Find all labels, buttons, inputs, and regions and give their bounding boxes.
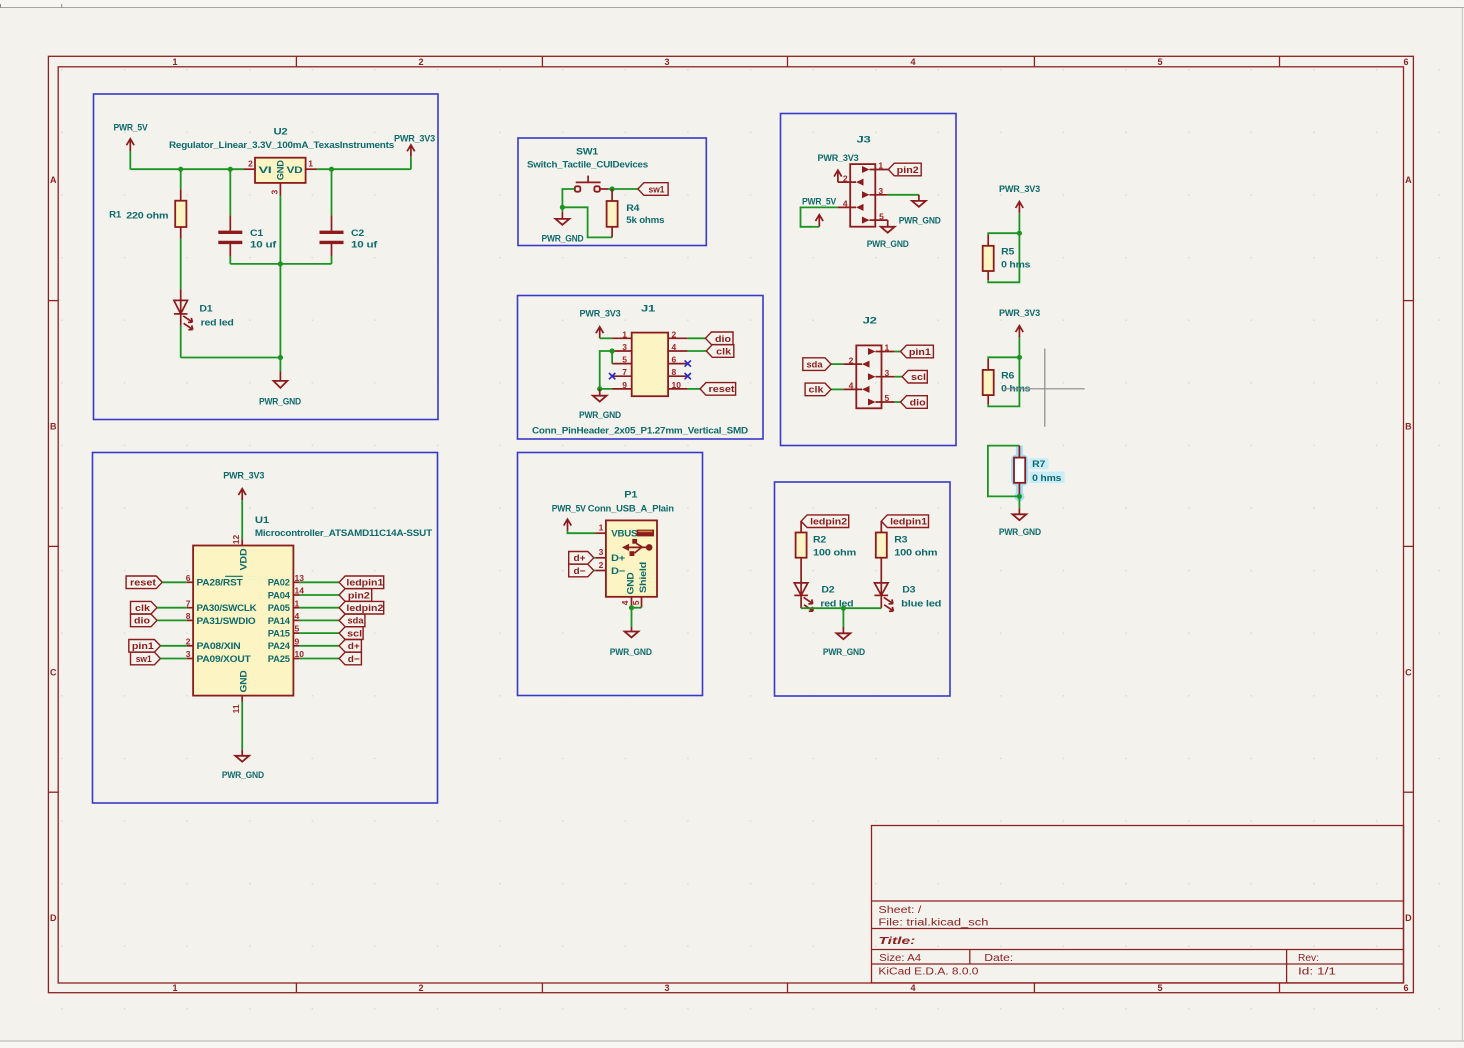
svg-text:PA04: PA04 xyxy=(268,590,291,601)
svg-text:dio: dio xyxy=(715,334,731,345)
wire pin1 J2 xyxy=(895,351,901,353)
svg-text:ledpin2: ledpin2 xyxy=(346,603,383,614)
pin 1 P1 xyxy=(595,532,606,534)
pin 10 U1 PA25 xyxy=(293,658,299,660)
svg-text:clk: clk xyxy=(809,385,825,396)
resistor R5 xyxy=(983,235,1030,281)
svg-text:PWR_3V3: PWR_3V3 xyxy=(999,308,1040,319)
node junction C1 xyxy=(228,167,233,172)
svg-text:1: 1 xyxy=(308,159,313,169)
node junction gnd sw xyxy=(560,205,565,210)
pin 2 J3 xyxy=(838,173,864,185)
svg-text:6: 6 xyxy=(1403,983,1408,993)
svg-text:blue led: blue led xyxy=(901,598,941,609)
wire R7 to gnd xyxy=(1018,496,1020,508)
no-connect pin7 xyxy=(609,373,615,379)
pin 3 J2 xyxy=(868,368,895,380)
pin 11 U1 GND xyxy=(241,696,243,702)
svg-text:PWR_3V3: PWR_3V3 xyxy=(818,153,859,164)
svg-text:D−: D− xyxy=(611,566,626,577)
svg-text:PWR_GND: PWR_GND xyxy=(222,770,264,781)
svg-text:2: 2 xyxy=(599,560,604,570)
pin 1 U1 PA05 xyxy=(293,607,299,609)
pin 8 J1 xyxy=(668,375,688,377)
svg-text:1: 1 xyxy=(295,598,300,608)
svg-text:3: 3 xyxy=(664,57,669,67)
svg-text:pin2: pin2 xyxy=(348,590,370,601)
svg-text:sda: sda xyxy=(807,359,824,370)
label reset J1 xyxy=(700,383,736,396)
svg-text:d+: d+ xyxy=(348,641,360,652)
node junction R1 xyxy=(178,167,183,172)
power flag PWR_5V xyxy=(114,123,149,151)
label sw1 xyxy=(638,183,668,196)
pin 4 P1 GND xyxy=(631,597,633,608)
svg-text:7: 7 xyxy=(622,367,627,377)
label pin2 J3 xyxy=(888,163,921,176)
svg-text:10 uf: 10 uf xyxy=(351,239,378,250)
resistor R1 xyxy=(109,169,186,238)
pin 1 U2 xyxy=(306,168,318,170)
label ledpin2 U1 xyxy=(300,601,384,614)
wire clk to pin4 xyxy=(831,388,843,390)
resistor R7 selected highlight halo xyxy=(1014,446,1065,502)
capacitor C2 xyxy=(320,169,379,256)
svg-text:PA02: PA02 xyxy=(268,578,290,589)
svg-text:R7: R7 xyxy=(1032,459,1045,470)
svg-text:dio: dio xyxy=(134,616,150,627)
connector J2 body xyxy=(856,315,881,408)
node junction caps gnd xyxy=(278,261,283,266)
svg-text:5: 5 xyxy=(879,211,884,221)
power flag PWR_3V3 R6 xyxy=(999,308,1040,337)
svg-text:reset: reset xyxy=(709,384,736,395)
svg-text:100 ohm: 100 ohm xyxy=(894,548,937,559)
svg-text:2: 2 xyxy=(418,983,423,993)
svg-text:PA31/SWDIO: PA31/SWDIO xyxy=(197,616,256,627)
no-connect pin6 xyxy=(685,360,691,366)
BLOCK P1 xyxy=(518,453,703,696)
label pin1 U1 xyxy=(129,640,187,653)
svg-text:PWR_GND: PWR_GND xyxy=(610,647,652,658)
svg-text:ledpin1: ledpin1 xyxy=(890,517,928,528)
svg-text:ledpin1: ledpin1 xyxy=(346,578,384,589)
label reset U1 xyxy=(126,576,187,589)
svg-text:5: 5 xyxy=(295,624,300,634)
svg-text:PWR_GND: PWR_GND xyxy=(899,215,941,226)
label dio J2 xyxy=(901,396,928,409)
group box leds xyxy=(775,482,951,696)
svg-text:0 hms: 0 hms xyxy=(1032,473,1061,484)
svg-text:PWR_3V3: PWR_3V3 xyxy=(223,471,264,482)
pin 13 U1 PA02 xyxy=(293,581,299,583)
wire R1 to D1 xyxy=(180,239,182,290)
svg-text:U2: U2 xyxy=(274,127,288,138)
resistor R4 xyxy=(607,189,665,237)
label d+ P1 xyxy=(569,552,596,565)
svg-text:6: 6 xyxy=(1403,57,1408,67)
svg-text:8: 8 xyxy=(672,367,677,377)
svg-text:11: 11 xyxy=(231,704,241,713)
node junction gnd xyxy=(278,355,283,360)
label ledpin2 xyxy=(801,515,849,528)
power flag PWR_3V3 xyxy=(394,133,435,157)
wire pin5 up to pin3 xyxy=(600,351,612,389)
svg-text:Conn_PinHeader_2x05_P1.27mm_Ve: Conn_PinHeader_2x05_P1.27mm_Vertical_SMD xyxy=(532,426,748,437)
svg-text:VBUS: VBUS xyxy=(611,529,637,540)
svg-text:PA24: PA24 xyxy=(268,641,291,652)
ground PWR_GND R7 xyxy=(999,508,1041,538)
node junction R7 bottom xyxy=(1017,494,1022,499)
node junction C2 xyxy=(329,167,334,172)
ground PWR_GND J3 right xyxy=(899,195,941,227)
svg-text:GND: GND xyxy=(239,670,250,692)
wire led cathode rail xyxy=(801,607,881,609)
svg-text:5: 5 xyxy=(1157,57,1162,67)
svg-text:PA08/XIN: PA08/XIN xyxy=(197,641,241,652)
svg-text:Switch_Tactile_CUIDevices: Switch_Tactile_CUIDevices xyxy=(527,160,648,171)
window chrome top line xyxy=(0,0,1464,7)
wire 5V to VBUS xyxy=(568,531,596,533)
svg-text:2: 2 xyxy=(849,355,854,365)
wire U2 pin3 to rail xyxy=(279,196,281,264)
wire pin3 to gnd xyxy=(888,194,919,196)
row ticks left xyxy=(48,300,58,302)
pin 6 J1 xyxy=(668,363,688,365)
svg-text:C: C xyxy=(50,667,57,677)
power flag PWR_5V P1 xyxy=(552,503,587,531)
svg-text:A: A xyxy=(50,175,57,185)
svg-text:PA30/SWCLK: PA30/SWCLK xyxy=(197,603,257,614)
svg-text:4: 4 xyxy=(620,600,630,605)
node junction sw1 xyxy=(610,186,615,191)
svg-text:J3: J3 xyxy=(857,134,871,145)
power flag PWR_3V3 J1 xyxy=(580,309,621,339)
svg-text:B: B xyxy=(1405,422,1412,432)
pin 4 J2 xyxy=(843,381,869,393)
resistor R7 xyxy=(1014,446,1061,497)
svg-text:Microcontroller_ATSAMD11C14A-S: Microcontroller_ATSAMD11C14A-SSUT xyxy=(255,528,432,539)
svg-text:PWR_3V3: PWR_3V3 xyxy=(394,133,435,144)
pin 10 J1 xyxy=(668,388,688,390)
svg-text:PWR_GND: PWR_GND xyxy=(259,397,301,408)
svg-text:File: trial.kicad_sch: File: trial.kicad_sch xyxy=(878,918,988,929)
svg-text:R6: R6 xyxy=(1001,370,1014,381)
svg-text:D1: D1 xyxy=(199,303,213,314)
svg-text:D+: D+ xyxy=(611,553,626,564)
svg-text:C1: C1 xyxy=(250,228,264,239)
node junction R6 top xyxy=(1017,355,1022,360)
pin 5 U1 PA15 xyxy=(293,632,299,634)
svg-text:6: 6 xyxy=(672,355,677,365)
power flag PWR_3V3 J3 xyxy=(818,153,859,182)
svg-text:5: 5 xyxy=(622,355,627,365)
svg-text:GND: GND xyxy=(625,572,636,594)
pin 2 J2 xyxy=(843,355,869,367)
ground PWR_GND U2 xyxy=(259,372,301,408)
window chrome right edge xyxy=(1461,8,1463,1042)
cursor crosshair xyxy=(1004,349,1085,427)
label d- P1 xyxy=(569,564,596,577)
ground PWR_GND P1 xyxy=(610,627,652,658)
wire PWR_3V3 vertical xyxy=(410,157,412,169)
svg-text:B: B xyxy=(50,422,57,432)
svg-text:R5: R5 xyxy=(1001,247,1015,258)
pin 1 J3 xyxy=(862,161,888,173)
power flag PWR_5V J3 xyxy=(802,196,837,227)
svg-text:0 hms: 0 hms xyxy=(1001,260,1030,271)
pin 3 U1 PA09 xyxy=(187,658,193,660)
resistor R2 xyxy=(796,521,856,595)
svg-text:PA14: PA14 xyxy=(268,616,291,627)
BLOCK U2 regulator xyxy=(94,94,439,420)
ground PWR_GND leds xyxy=(823,627,865,658)
svg-text:scl: scl xyxy=(347,628,362,639)
pin 4 U1 PA14 xyxy=(293,619,299,621)
label ledpin1 xyxy=(881,515,928,528)
node junction R5 top xyxy=(1017,231,1022,236)
label pin1 J2 xyxy=(901,345,934,358)
svg-text:220 ohm: 220 ohm xyxy=(126,211,168,222)
svg-text:SW1: SW1 xyxy=(576,147,599,158)
svg-text:Regulator_Linear_3.3V_100mA_Te: Regulator_Linear_3.3V_100mA_TexasInstrum… xyxy=(169,140,394,151)
svg-text:PWR_GND: PWR_GND xyxy=(579,410,621,421)
svg-text:dio: dio xyxy=(910,397,926,408)
power flag PWR_3V3 R5 xyxy=(999,184,1040,213)
svg-text:10 uf: 10 uf xyxy=(250,239,277,250)
svg-text:pin2: pin2 xyxy=(897,165,919,176)
svg-text:PA05: PA05 xyxy=(268,603,291,614)
label scl J2 xyxy=(902,370,927,383)
no-connect pin8 xyxy=(685,373,691,379)
BLOCK U1 xyxy=(93,453,438,804)
pin 3 J3 xyxy=(862,186,888,198)
svg-text:PWR_5V: PWR_5V xyxy=(802,196,837,207)
pin 2 J1 xyxy=(668,337,688,339)
svg-text:2: 2 xyxy=(248,159,253,169)
svg-text:4: 4 xyxy=(849,381,854,391)
svg-text:Title:: Title: xyxy=(878,936,915,947)
pin 3 J1 xyxy=(612,350,632,352)
wire pin5 J2 xyxy=(895,401,901,403)
svg-text:scl: scl xyxy=(911,372,926,383)
column ticks bottom xyxy=(295,983,297,993)
pin 7 J1 xyxy=(612,375,632,377)
svg-text:clk: clk xyxy=(135,603,151,614)
wire pin10 to reset xyxy=(688,388,700,390)
svg-text:3: 3 xyxy=(622,342,627,352)
wire C2 down xyxy=(331,256,333,264)
svg-text:clk: clk xyxy=(716,347,732,358)
pin 1 J2 xyxy=(868,343,895,355)
svg-text:VD: VD xyxy=(287,165,303,176)
pin 1 J1 xyxy=(612,337,632,339)
svg-text:PWR_GND: PWR_GND xyxy=(867,239,909,250)
svg-text:Conn_USB_A_Plain: Conn_USB_A_Plain xyxy=(588,503,674,514)
USB icon trident xyxy=(622,539,653,556)
svg-text:4: 4 xyxy=(910,983,915,993)
column ticks top xyxy=(295,56,297,67)
svg-text:4: 4 xyxy=(910,57,915,67)
BLOCK J3 J2 xyxy=(781,114,957,446)
wire power to pin1 xyxy=(600,337,612,339)
wire pin2 to dio xyxy=(688,337,706,339)
row ticks right xyxy=(1404,300,1414,302)
wire pin4 to clk xyxy=(688,350,707,352)
wire 3V3 rail xyxy=(317,168,411,170)
svg-text:PWR_GND: PWR_GND xyxy=(999,527,1041,538)
pin 9 U1 PA24 xyxy=(293,645,299,647)
TITLEBLOCK xyxy=(872,826,1404,984)
svg-text:9: 9 xyxy=(295,636,300,646)
ground PWR_GND J3 bottom xyxy=(867,220,909,250)
svg-text:ledpin2: ledpin2 xyxy=(810,517,847,528)
pin 12 U1 VDD xyxy=(241,539,243,545)
pin 3 U2 xyxy=(279,183,281,196)
pin 7 U1 PA30 xyxy=(187,607,193,609)
label clk U1 xyxy=(131,601,187,614)
label ledpin1 U1 xyxy=(300,576,384,589)
svg-text:PWR_3V3: PWR_3V3 xyxy=(580,309,621,320)
resistor R3 xyxy=(876,521,938,595)
svg-text:D3: D3 xyxy=(902,585,915,596)
svg-text:A: A xyxy=(1405,175,1412,185)
group box J3 J2 xyxy=(781,114,957,446)
svg-text:J2: J2 xyxy=(863,315,877,326)
node junction P1 gnd xyxy=(629,605,634,610)
svg-text:9: 9 xyxy=(622,380,627,390)
svg-text:PA15: PA15 xyxy=(268,629,291,640)
resistor R6 xyxy=(983,359,1030,405)
svg-text:3: 3 xyxy=(664,983,669,993)
svg-text:5: 5 xyxy=(631,600,641,605)
wire pin4 to 5V xyxy=(801,207,838,226)
label sda J2 xyxy=(803,358,831,371)
wire gnd jog xyxy=(562,207,612,237)
wire main 5V rail xyxy=(130,168,243,170)
svg-text:PWR_5V: PWR_5V xyxy=(552,503,587,514)
svg-text:R1: R1 xyxy=(109,210,122,221)
group box U1 xyxy=(93,453,438,804)
svg-text:PWR_GND: PWR_GND xyxy=(823,647,865,658)
svg-text:d+: d+ xyxy=(574,553,586,564)
svg-text:4: 4 xyxy=(672,342,677,352)
svg-text:1: 1 xyxy=(599,523,604,533)
connector J3 body xyxy=(850,134,875,226)
svg-text:10: 10 xyxy=(672,380,682,390)
svg-text:Date:: Date: xyxy=(984,953,1013,964)
svg-text:3: 3 xyxy=(599,547,604,557)
label clk J2 xyxy=(805,383,831,396)
node junction pin9 xyxy=(597,386,602,391)
svg-text:1: 1 xyxy=(172,983,177,993)
group box switch xyxy=(518,138,706,246)
wire R5 loop xyxy=(988,233,1019,282)
pin 5 J3 xyxy=(862,211,888,223)
wire GND down xyxy=(241,702,243,750)
diode D3 LED xyxy=(875,583,942,611)
pin 8 U1 PA31 xyxy=(187,619,193,621)
label clk J1 xyxy=(706,345,734,358)
svg-text:pin1: pin1 xyxy=(132,641,155,652)
USB icon bar xyxy=(637,530,654,537)
svg-text:pin1: pin1 xyxy=(909,347,932,358)
wire pin3 J2 xyxy=(895,376,903,378)
pin 3 P1 xyxy=(595,557,606,559)
connector J1 body xyxy=(532,303,748,436)
svg-text:5: 5 xyxy=(885,393,890,403)
svg-text:KiCad E.D.A. 8.0.0: KiCad E.D.A. 8.0.0 xyxy=(878,966,979,977)
svg-text:C: C xyxy=(1405,667,1412,677)
svg-text:Id: 1/1: Id: 1/1 xyxy=(1298,966,1337,977)
svg-text:2: 2 xyxy=(843,173,848,183)
wire PWR_5V vertical xyxy=(129,151,131,169)
svg-text:1: 1 xyxy=(878,161,883,171)
svg-text:GND: GND xyxy=(276,160,287,180)
svg-text:Rev:: Rev: xyxy=(1298,953,1319,964)
label sw1 U1 xyxy=(131,652,187,665)
svg-text:100 ohm: 100 ohm xyxy=(813,548,856,559)
ground PWR_GND J1 xyxy=(579,389,621,421)
svg-text:Size: A4: Size: A4 xyxy=(879,953,921,964)
label scl U1 xyxy=(300,627,363,640)
wire shield to gnd xyxy=(632,608,642,627)
ground PWR_GND SW1 xyxy=(542,207,584,244)
svg-text:VDD: VDD xyxy=(239,548,250,570)
label sda U1 xyxy=(300,614,365,627)
BLOCK R567 xyxy=(983,184,1085,538)
svg-text:PWR_5V: PWR_5V xyxy=(114,123,149,134)
svg-text:VI: VI xyxy=(259,165,272,176)
svg-text:2: 2 xyxy=(418,57,423,67)
wire switch right to label xyxy=(608,188,638,190)
label dio U1 xyxy=(131,614,187,627)
wire R6 loop xyxy=(988,357,1019,406)
BLOCK LEDS xyxy=(775,482,951,696)
wire 3V3 to VDD xyxy=(241,500,243,539)
wire led gnd down xyxy=(842,608,844,627)
group box J1 xyxy=(518,296,764,440)
svg-text:4: 4 xyxy=(295,611,300,621)
pin 2 U2 xyxy=(244,168,255,170)
group box P1 xyxy=(518,453,703,696)
svg-text:D2: D2 xyxy=(821,585,834,596)
svg-text:J1: J1 xyxy=(641,303,656,314)
capacitor C1 xyxy=(218,169,277,256)
svg-text:5k ohms: 5k ohms xyxy=(626,215,664,226)
svg-text:sw1: sw1 xyxy=(136,654,153,665)
svg-text:1: 1 xyxy=(885,343,890,353)
svg-text:3: 3 xyxy=(885,368,890,378)
pin 14 U1 PA04 xyxy=(293,594,299,596)
label d+ U1 xyxy=(300,640,362,653)
window chrome bottom separator xyxy=(0,1042,1464,1048)
BLOCK J1 xyxy=(518,296,764,440)
svg-text:5: 5 xyxy=(1157,983,1162,993)
svg-text:D: D xyxy=(1405,913,1412,923)
svg-text:R2: R2 xyxy=(813,535,826,546)
pin 2 P1 xyxy=(595,570,606,572)
diode D1 LED xyxy=(174,289,234,330)
microcontroller U1 body xyxy=(193,515,432,695)
svg-text:PA28/RST: PA28/RST xyxy=(197,578,243,589)
wire sda to pin2 xyxy=(831,363,843,365)
svg-text:R3: R3 xyxy=(894,535,907,546)
wire D1 bottom horizontal xyxy=(181,357,281,359)
connector P1 USB body xyxy=(588,490,674,597)
wire caps bottom rail xyxy=(230,263,331,265)
svg-text:sw1: sw1 xyxy=(649,185,666,196)
